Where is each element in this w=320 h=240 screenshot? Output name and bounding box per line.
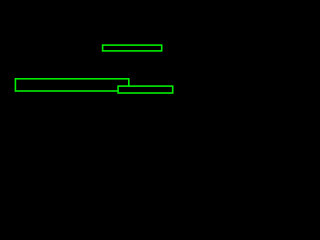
box top xyxy=(103,45,162,51)
box lower-right xyxy=(118,86,173,93)
box large xyxy=(15,79,128,91)
